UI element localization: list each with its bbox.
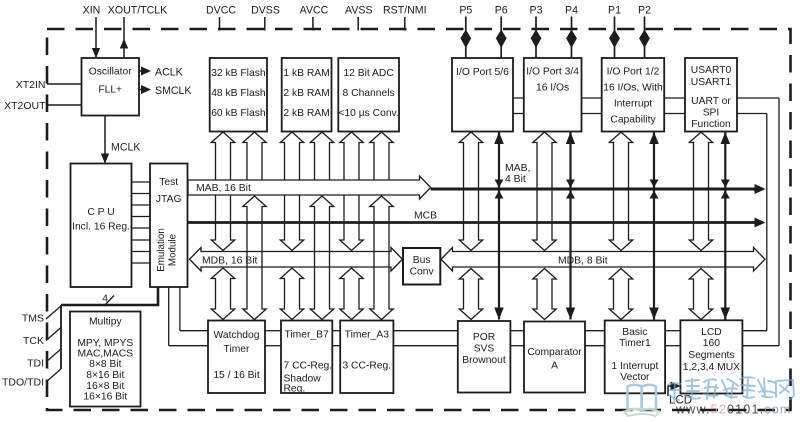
bold wire USART-LCD <box>724 132 726 320</box>
svg-text:12 Bit ADC: 12 Bit ADC <box>343 68 394 79</box>
svg-text:MDB, 16 Bit: MDB, 16 Bit <box>202 256 258 267</box>
svg-text:Timer1: Timer1 <box>619 338 651 349</box>
svg-text:15 / 16 Bit: 15 / 16 Bit <box>213 370 260 381</box>
bus width slash 4 <box>104 296 114 307</box>
svg-text:Oscillator: Oscillator <box>89 67 132 78</box>
svg-text:160: 160 <box>703 338 720 349</box>
arrow TimerB7 to MAB16 <box>310 196 333 320</box>
svg-text:TDI: TDI <box>27 358 44 370</box>
svg-text:P2: P2 <box>638 5 651 17</box>
flash memory block <box>210 58 267 132</box>
arrow TimerA3 to MAB16 <box>370 196 393 320</box>
svg-text:MAB, 16 Bit: MAB, 16 Bit <box>196 183 251 194</box>
signal MCLK wire <box>104 116 106 153</box>
JTAG 4-wire bundle <box>61 287 158 305</box>
svg-text:1 Interrupt: 1 Interrupt <box>611 361 658 372</box>
oscillator FLL+ block <box>82 58 140 116</box>
svg-text:Module: Module <box>168 233 179 266</box>
bus MDB 8-bit band <box>441 248 765 272</box>
module chain wires bottom row <box>265 330 281 332</box>
I/O Port 3/4 block <box>524 58 582 132</box>
bus MDB 16-bit band <box>190 248 403 272</box>
svg-text:ACLK: ACLK <box>155 67 183 79</box>
svg-text:XT2OUT: XT2OUT <box>4 100 46 112</box>
arrow ADC to MDB16 <box>340 132 363 251</box>
svg-text:P4: P4 <box>565 5 578 17</box>
svg-text:60 kB Flash: 60 kB Flash <box>211 108 266 119</box>
chain wire from emulation module down <box>168 287 170 346</box>
svg-text:Vector: Vector <box>620 372 650 383</box>
wires CPU to Test/JTAG <box>132 181 151 183</box>
svg-text:I/O Port 5/6: I/O Port 5/6 <box>456 67 509 78</box>
svg-text:MAB,: MAB, <box>505 163 530 174</box>
arrow MDB8 to LCD <box>689 269 712 320</box>
svg-text:Capability: Capability <box>610 115 656 126</box>
arrow USART to MDB8 <box>689 132 712 251</box>
svg-text:XT2IN: XT2IN <box>16 79 46 91</box>
bus MAB 4-bit bold line <box>431 188 757 191</box>
svg-text:JTAG: JTAG <box>156 194 182 205</box>
arrow RAM to MAB16 <box>310 132 333 180</box>
arrow WDT to MAB16 <box>243 196 266 320</box>
Timer_B7 block <box>281 321 332 394</box>
svg-text:8×8 Bit: 8×8 Bit <box>89 359 121 370</box>
svg-text:48 kB Flash: 48 kB Flash <box>211 88 266 99</box>
svg-text:A: A <box>551 361 558 372</box>
bus converter block <box>403 248 440 285</box>
bus MAB 16-bit band <box>188 176 431 199</box>
chain wire USART to right edge riser <box>737 97 779 99</box>
arrow MDB8 to ComparatorA <box>533 269 556 320</box>
svg-text:2 kB RAM: 2 kB RAM <box>283 108 329 119</box>
svg-text:MDB, 8 Bit: MDB, 8 Bit <box>558 256 608 267</box>
bus MCB bold line <box>188 221 757 224</box>
svg-text:P1: P1 <box>608 5 621 17</box>
arrow MDB16 to TimerA3 <box>340 268 363 320</box>
svg-text:Basic: Basic <box>622 327 647 338</box>
Test JTAG / Emulation module block <box>150 164 188 288</box>
arrow MDB8 to BasicTimer1 <box>609 269 632 320</box>
svg-text:DVSS: DVSS <box>251 5 280 17</box>
svg-text:SMCLK: SMCLK <box>155 85 192 97</box>
svg-text:4: 4 <box>102 293 108 305</box>
svg-text:MPY, MPYS: MPY, MPYS <box>77 338 133 349</box>
svg-text:SVS: SVS <box>474 344 495 355</box>
svg-text:Reg.: Reg. <box>284 384 306 395</box>
chain wire risers to LCD <box>742 345 779 347</box>
svg-text:USART1: USART1 <box>691 77 732 88</box>
svg-text:16×16 Bit: 16×16 Bit <box>83 392 127 403</box>
svg-text:POR: POR <box>473 332 495 343</box>
svg-text:Watchdog: Watchdog <box>214 330 260 341</box>
svg-text:I/O Port 3/4: I/O Port 3/4 <box>526 67 579 78</box>
USART block <box>685 58 737 132</box>
svg-text:RST/NMI: RST/NMI <box>383 5 427 17</box>
svg-text:Timer: Timer <box>224 344 250 355</box>
svg-text:Multipy: Multipy <box>89 317 122 328</box>
svg-text:Interrupt: Interrupt <box>614 99 652 110</box>
svg-text:TDO/TDI: TDO/TDI <box>2 377 44 389</box>
svg-text:AVSS: AVSS <box>345 5 372 17</box>
arrow MDB8 to POR <box>459 269 482 320</box>
I/O Port 5/6 block <box>452 58 513 132</box>
svg-text:FLL+: FLL+ <box>98 85 122 96</box>
svg-text:Emulation: Emulation <box>156 228 167 272</box>
svg-text:Bus: Bus <box>413 255 431 266</box>
svg-text:XIN: XIN <box>83 5 101 17</box>
svg-text:P6: P6 <box>495 5 508 17</box>
arrow ADC to MAB16 <box>370 132 393 180</box>
svg-text:P5: P5 <box>459 5 472 17</box>
svg-text:MAC,MACS: MAC,MACS <box>78 349 134 360</box>
svg-text:USART0: USART0 <box>691 65 732 76</box>
arrow MDB16 to TimerB7 <box>280 268 303 320</box>
svg-text:<10 µs Conv.: <10 µs Conv. <box>338 108 398 119</box>
RAM block <box>282 58 332 132</box>
svg-text:2 kB RAM: 2 kB RAM <box>283 88 329 99</box>
svg-text:Timer_A3: Timer_A3 <box>345 330 390 341</box>
arrow Port5/6 to MDB8 <box>459 132 482 251</box>
svg-text:www.520101.com: www.520101.com <box>675 403 791 417</box>
arrow Flash to MDB16 <box>211 132 234 251</box>
bold wire Port1/2-BasicTimer <box>653 132 655 320</box>
svg-text:1,2,3,4 MUX: 1,2,3,4 MUX <box>683 362 740 373</box>
arrow Flash to MAB16 <box>243 132 266 180</box>
watchdog timer block <box>208 321 265 394</box>
arrow Port3/4 to MDB8 <box>533 132 556 251</box>
hardware multiplier block <box>70 312 141 407</box>
svg-text:8×16 Bit: 8×16 Bit <box>86 370 124 381</box>
svg-text:I/O Port 1/2: I/O Port 1/2 <box>607 67 660 78</box>
svg-text:Timer_B7: Timer_B7 <box>284 330 329 341</box>
svg-text:Conv: Conv <box>410 267 435 278</box>
svg-text:7 CC-Reg.: 7 CC-Reg. <box>284 361 333 372</box>
svg-text:16 I/Os, With: 16 I/Os, With <box>603 83 663 94</box>
svg-text:16 I/Os: 16 I/Os <box>536 83 569 94</box>
svg-text:XOUT/TCLK: XOUT/TCLK <box>108 5 167 17</box>
svg-text:Brownout: Brownout <box>462 355 506 366</box>
signal ACLK <box>139 70 142 72</box>
svg-text:AVCC: AVCC <box>300 5 329 17</box>
bold wire Port5/6-POR <box>498 132 500 320</box>
node TMS/TCK/TDI/TDO vertical wire <box>60 305 62 369</box>
LCD segment output wire <box>668 386 672 396</box>
svg-text:Segments: Segments <box>688 350 734 361</box>
svg-text:Function: Function <box>691 119 731 130</box>
CPU block <box>71 164 132 288</box>
Timer_A3 block <box>340 321 393 394</box>
arrow Port1/2 to MDB8 <box>609 132 632 251</box>
svg-text:Comparator: Comparator <box>527 347 582 358</box>
arrow MDB16 to WDT <box>211 268 234 320</box>
svg-text:Test: Test <box>159 177 178 188</box>
svg-text:Incl. 16 Reg.: Incl. 16 Reg. <box>72 222 130 233</box>
svg-text:MCB: MCB <box>414 211 437 222</box>
svg-text:32 kB Flash: 32 kB Flash <box>211 68 266 79</box>
svg-text:SPI: SPI <box>703 108 720 119</box>
LCD driver block <box>680 320 742 393</box>
svg-text:DVCC: DVCC <box>206 5 236 17</box>
module chain wires top row <box>513 97 524 99</box>
svg-text:LCD: LCD <box>701 327 722 338</box>
svg-text:1 kB RAM: 1 kB RAM <box>283 68 329 79</box>
svg-text:3 CC-Reg.: 3 CC-Reg. <box>342 361 391 372</box>
svg-text:8 Channels: 8 Channels <box>343 88 395 99</box>
watermark chinese text <box>668 377 794 401</box>
svg-text:TMS: TMS <box>22 313 44 325</box>
bold wire Port3/4-Comparator <box>569 132 571 320</box>
signal SMCLK <box>139 89 142 91</box>
svg-text:UART or: UART or <box>691 96 731 107</box>
svg-text:16×8 Bit: 16×8 Bit <box>86 381 124 392</box>
svg-text:4 Bit: 4 Bit <box>505 174 526 185</box>
svg-text:MCLK: MCLK <box>111 142 140 154</box>
I/O Port 1/2 block <box>602 58 665 132</box>
Comparator_A block <box>524 322 585 393</box>
svg-text:TCK: TCK <box>23 335 44 347</box>
watermark book icon <box>624 385 660 417</box>
POR/SVS brownout block <box>458 321 511 393</box>
svg-text:P3: P3 <box>530 5 543 17</box>
ADC block <box>338 58 399 132</box>
arrow RAM to MDB16 <box>280 132 303 251</box>
basic timer1 block <box>605 321 665 394</box>
svg-text:C P U: C P U <box>87 207 114 218</box>
